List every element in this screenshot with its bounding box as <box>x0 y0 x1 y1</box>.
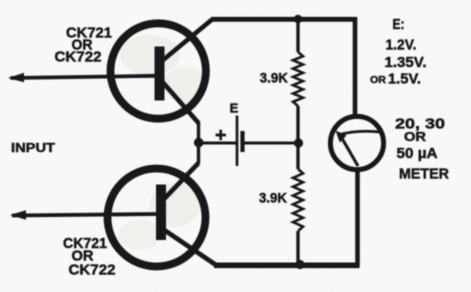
Q2 body circle <box>108 169 206 267</box>
Q2 collector lead up to battery node <box>165 163 199 199</box>
meter needle arrowhead <box>336 131 347 143</box>
wire: right vertical from meter down to bottom rail <box>355 170 360 266</box>
wire: resistor chain vertical upper lead <box>296 19 299 52</box>
label: Q2 type CK721 OR CK722 <box>63 235 116 279</box>
label: meter rating 20, 30 OR 50 uA METER <box>395 116 449 183</box>
wire: battery to mid node <box>245 142 299 145</box>
Q1 collector lead to top rail <box>163 20 213 61</box>
battery E <box>216 116 243 167</box>
resistor R2 3.9K (lower) <box>293 169 303 231</box>
wire: between mid node and R2 <box>296 143 299 169</box>
battery long (+) plate <box>236 116 239 167</box>
node: junction of bottom rail and resistor chain <box>295 260 304 269</box>
battery + polarity sign <box>216 130 227 140</box>
Q1 base bar <box>155 47 165 101</box>
wire: node A to battery <box>199 142 236 145</box>
paper mottling inside Q2 body <box>150 183 200 227</box>
meter needle <box>342 138 359 167</box>
Q1 body circle <box>111 23 206 118</box>
wire: right vertical from top rail down to meter <box>353 17 358 116</box>
node A: junction of Q1 emitter, Q2 collector and battery wire <box>194 138 204 148</box>
meter scale arc <box>339 131 383 135</box>
paper mottling inside Q1 body <box>120 35 180 75</box>
wire: resistor chain lower lead <box>296 231 299 265</box>
wire: bottom rail from Q2 emitter to meter branch <box>214 262 360 268</box>
transistor Q2 CK721/CK722 (lower) <box>10 163 218 267</box>
label: battery voltage options E: 1.2V 1.35V or 1.5V <box>370 16 427 87</box>
wire: between R1 and mid node <box>296 106 299 143</box>
node: junction of top rail and resistor chain <box>294 15 303 24</box>
label: Q1 type CK721 OR CK722 <box>55 25 113 66</box>
resistor R1 3.9K (upper) <box>293 52 303 106</box>
battery short (-) plate <box>240 131 244 152</box>
wire: top rail from Q1 collector to meter branch <box>211 17 356 22</box>
transistor Q1 CK721/CK722 (upper) <box>8 20 212 124</box>
Q1 emitter lead down to battery node <box>163 82 199 123</box>
Q1 base lead wire with input arrow <box>11 76 158 78</box>
Q2 emitter lead to bottom rail <box>164 230 218 267</box>
Q2 base lead wire with input arrow <box>12 214 158 216</box>
meter body circle <box>330 116 383 169</box>
wire: emitter/collector tie vertical at node A <box>197 122 200 164</box>
node: mid junction (battery tap) <box>294 138 303 147</box>
Q2 base bar <box>156 185 166 241</box>
meter M1 (20/30/50 microamp) <box>330 116 383 169</box>
